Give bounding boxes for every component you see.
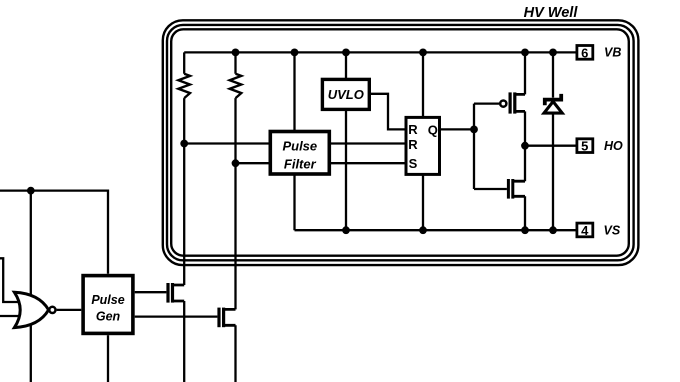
svg-text:VS: VS [604,224,621,238]
svg-text:UVLO: UVLO [328,87,364,102]
svg-text:HO: HO [604,139,623,153]
svg-text:S: S [409,156,418,171]
svg-text:R: R [408,122,418,137]
svg-text:VB: VB [604,45,621,59]
svg-text:Pulse: Pulse [282,139,317,154]
svg-text:5: 5 [581,139,588,154]
svg-text:Gen: Gen [96,310,121,324]
svg-text:Q: Q [428,123,438,138]
svg-text:Pulse: Pulse [91,293,124,307]
svg-text:HV Well: HV Well [524,5,579,21]
svg-text:Filter: Filter [284,157,317,172]
svg-text:R: R [408,137,418,152]
svg-text:6: 6 [581,45,588,60]
svg-text:4: 4 [581,223,589,238]
